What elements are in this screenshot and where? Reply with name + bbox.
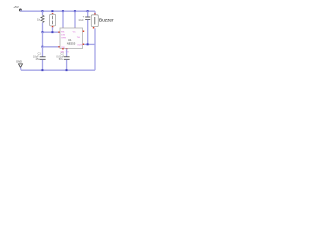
- wire C2 to gnd rail: [66, 60, 68, 71]
- svg-text:+5V: +5V: [13, 5, 20, 9]
- pin mark R2 top: [52, 13, 54, 15]
- wire C3 top lead: [87, 11, 89, 17]
- wire RESET pin from rail: [62, 11, 64, 28]
- pin mark DIS: [58, 31, 60, 33]
- wire R2 bottom lead: [52, 27, 54, 32]
- svg-text:GND: GND: [16, 60, 22, 64]
- pin mark U1 right RST: [83, 31, 85, 33]
- node junction y32-right: [51, 31, 53, 33]
- svg-text:TH: TH: [77, 37, 80, 39]
- svg-text:RS: RS: [61, 31, 65, 33]
- wire R1 top lead: [42, 11, 44, 15]
- ground symbol: [19, 64, 23, 68]
- capacitor C1 plate top: [40, 56, 46, 58]
- svg-text:10uF: 10uF: [78, 20, 84, 22]
- capacitor C2 plate top: [64, 56, 70, 58]
- power +5V symbol: [19, 9, 22, 12]
- node junction rail-pin RESET: [62, 10, 64, 12]
- wire C3 bottom down to OUT row: [87, 20, 89, 45]
- node junction rail-C3: [87, 10, 89, 12]
- node junction y32-left: [41, 31, 43, 33]
- wire C1 to gnd rail: [42, 60, 44, 71]
- photoresistor R2 inner element: [52, 16, 54, 19]
- node junction y47: [41, 46, 43, 48]
- node junction rail-C2: [66, 69, 68, 71]
- svg-text:VC: VC: [73, 31, 76, 33]
- wire buzzer bottom to gnd rail: [94, 28, 96, 70]
- pin mark U1 bottom CV: [66, 48, 68, 50]
- capacitor C1 plate bottom: [40, 58, 46, 60]
- pin mark R2 bottom: [52, 26, 54, 28]
- IC U1 NE555 body: [60, 28, 83, 49]
- wire node row y32 to DIS pin: [43, 31, 60, 33]
- node VCC pin terminal: [74, 28, 76, 30]
- node junction rail-R2box: [51, 10, 53, 12]
- wire bottom GND rail: [21, 69, 95, 71]
- photoresistor R2 body: [50, 14, 56, 26]
- pin mark U1 right OUT: [83, 44, 85, 46]
- wire TRIG row y47: [43, 46, 60, 48]
- node junction rail-pin VCC: [74, 10, 76, 12]
- wire top VCC rail: [21, 10, 95, 12]
- wire VCC pin from rail: [74, 11, 76, 28]
- svg-text:NE555: NE555: [67, 41, 76, 45]
- wire down to TRIG row: [42, 32, 44, 47]
- node junction rail-C1: [41, 69, 43, 71]
- node junction OUT-C3: [87, 43, 89, 45]
- svg-text:Buzzer: Buzzer: [99, 18, 114, 23]
- capacitor C3 plate top: [85, 16, 90, 18]
- capacitor C2 plate bottom: [64, 58, 70, 60]
- node RESET pin terminal: [62, 28, 64, 30]
- wire OUT row: [84, 43, 95, 45]
- resistor R1: [41, 15, 44, 22]
- wire CV pin to C2: [66, 49, 68, 57]
- buzzer LS1 body: [91, 15, 98, 27]
- wire power stub: [20, 10, 23, 11]
- svg-text:THR: THR: [61, 38, 66, 40]
- wire to C1: [42, 47, 44, 57]
- svg-text:OUT: OUT: [77, 44, 82, 46]
- wire R1 bottom to node row: [42, 23, 44, 33]
- wire ground stub: [20, 67, 23, 70]
- pin mark U1 bottom GND: [62, 48, 64, 50]
- svg-text:DIS: DIS: [61, 35, 65, 37]
- photoresistor R2 inner element lower: [52, 21, 54, 25]
- pin mark buzzer top: [94, 13, 96, 15]
- wire rail corner down to buzzer: [94, 11, 96, 14]
- node junction rail-R1: [41, 10, 43, 12]
- capacitor C3 plate bottom: [85, 18, 90, 20]
- pin mark TRIG wire end: [58, 46, 60, 48]
- buzzer LS1 inner element: [94, 17, 96, 24]
- pin mark buzzer bottom: [93, 27, 95, 29]
